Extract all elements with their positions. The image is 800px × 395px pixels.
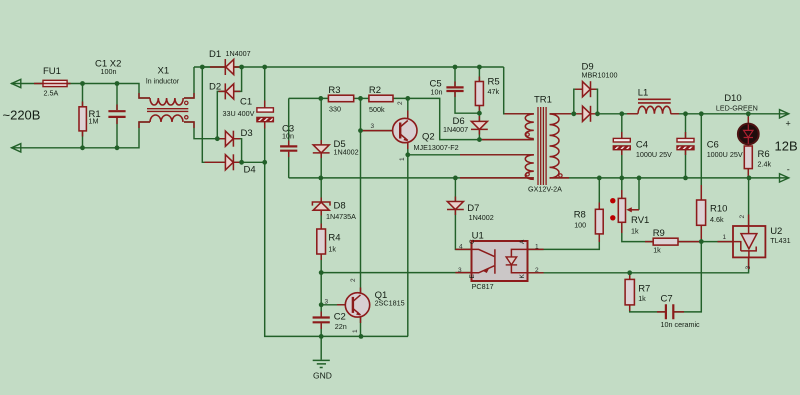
- svg-text:100: 100: [574, 221, 586, 230]
- resistor R7: [625, 279, 634, 305]
- wire R10 column: [674, 114, 702, 312]
- wire Q2 base: [361, 130, 394, 132]
- wire C5 column: [455, 67, 479, 113]
- wire RV1 leads: [622, 178, 653, 242]
- led D10: [738, 124, 759, 145]
- svg-text:D8: D8: [334, 201, 346, 212]
- svg-text:LED-GREEN: LED-GREEN: [716, 104, 758, 113]
- wire D10 R6 column: [747, 114, 749, 178]
- svg-text:4.6k: 4.6k: [710, 215, 724, 224]
- svg-text:2SC1815: 2SC1815: [375, 299, 405, 308]
- wire C3 column: [288, 98, 290, 177]
- svg-text:FU1: FU1: [43, 66, 61, 77]
- svg-text:1: 1: [352, 329, 359, 333]
- wire U2 cathode lead: [748, 178, 750, 226]
- ground: [313, 360, 330, 367]
- wire C1 column: [264, 67, 266, 162]
- svg-text:2: 2: [739, 215, 746, 219]
- svg-text:GND: GND: [313, 371, 332, 381]
- diode D2: [225, 83, 233, 99]
- optocoupler U1: [472, 241, 528, 281]
- wire Q2 emitter node: [408, 140, 534, 336]
- wire left bridge rail: [202, 67, 225, 162]
- rv1 marker dots: [610, 198, 615, 221]
- capacitor C2: [313, 318, 330, 323]
- svg-text:Q2: Q2: [422, 132, 435, 143]
- wire C6 column: [685, 114, 687, 178]
- wire bottom input row: [11, 122, 150, 148]
- svg-text:4: 4: [459, 244, 463, 251]
- wire R1 R4 R5 pins: [83, 77, 480, 261]
- svg-text:D1: D1: [209, 49, 221, 60]
- inductor L1: [638, 99, 671, 114]
- svg-text:330: 330: [329, 105, 341, 114]
- wire secondary bottom rail: [552, 177, 788, 179]
- svg-text:GX12V-2A: GX12V-2A: [528, 185, 562, 194]
- resistor R4: [317, 229, 326, 254]
- svg-text:10n ceramic: 10n ceramic: [661, 320, 701, 329]
- capacitor C7: [666, 304, 673, 319]
- svg-text:D4: D4: [244, 165, 256, 176]
- svg-text:A: A: [519, 239, 526, 244]
- svg-text:1: 1: [399, 157, 406, 161]
- svg-text:X1: X1: [158, 66, 170, 77]
- wire D8 top lead: [320, 178, 322, 202]
- wire D5 leads: [320, 98, 322, 177]
- output arrow plus: [780, 110, 789, 118]
- svg-text:1N4002: 1N4002: [334, 148, 359, 157]
- svg-text:1: 1: [723, 234, 727, 241]
- wire primary clamp rail: [289, 177, 534, 179]
- wire gnd stub: [320, 336, 322, 359]
- svg-text:1k: 1k: [328, 245, 336, 254]
- wire D10 R6 pins: [747, 117, 749, 177]
- svg-text:R3: R3: [328, 85, 340, 96]
- wire top rail: [194, 66, 504, 68]
- wire RV1 pins: [621, 190, 623, 233]
- wire C4 C6 pins: [622, 132, 686, 155]
- wire U1 pin stubs: [455, 249, 543, 272]
- transistor Q1: [345, 293, 369, 317]
- wire R1 leads: [82, 84, 84, 148]
- svg-text:3: 3: [458, 267, 462, 274]
- svg-text:1000U 25V: 1000U 25V: [636, 150, 672, 159]
- zener diode D8: [312, 202, 330, 210]
- svg-text:R2: R2: [369, 85, 381, 96]
- svg-text:R7: R7: [638, 284, 650, 295]
- transformer TR1: [525, 107, 562, 185]
- svg-text:R4: R4: [328, 233, 340, 244]
- wire C2 column: [320, 305, 322, 337]
- output arrow minus: [780, 174, 789, 182]
- svg-text:C: C: [469, 239, 476, 244]
- svg-text:C2: C2: [334, 312, 346, 323]
- wire C1 pins: [264, 101, 266, 129]
- svg-text:47k: 47k: [488, 87, 500, 96]
- svg-text:2.4k: 2.4k: [758, 160, 772, 169]
- svg-text:R6: R6: [758, 149, 770, 160]
- svg-text:1N4007: 1N4007: [226, 49, 251, 58]
- svg-text:MJE13007-F2: MJE13007-F2: [414, 143, 459, 152]
- diode D5: [313, 145, 330, 153]
- resistor R5: [475, 82, 483, 106]
- svg-text:D2: D2: [209, 82, 221, 93]
- input arrow bottom: [12, 144, 21, 152]
- svg-text:500k: 500k: [369, 105, 385, 114]
- wire R4 leads: [320, 210, 322, 273]
- capacitor C6: [677, 138, 694, 149]
- wire top input row: [11, 84, 150, 99]
- wire R9 right / U2 ref: [678, 241, 733, 243]
- svg-text:1N4007: 1N4007: [443, 125, 468, 134]
- resistor R6: [744, 146, 752, 169]
- shunt regulator U2: [733, 226, 765, 257]
- svg-text:C6: C6: [707, 140, 719, 151]
- capacitor C4: [613, 138, 630, 149]
- wire snubber top row: [289, 97, 329, 99]
- wire D5 D6 D7 D8 pins: [321, 116, 479, 216]
- wire Q1 Q2 stubs: [337, 111, 408, 324]
- capacitor C5: [446, 87, 463, 91]
- wire R8 pins: [598, 203, 600, 243]
- common mode choke X1: [147, 98, 188, 122]
- svg-text:2.5A: 2.5A: [44, 89, 59, 98]
- wire C5 C3 C2 C1X2 pins: [117, 82, 455, 330]
- diode D6: [471, 121, 488, 129]
- diode D1: [225, 59, 233, 75]
- wire C1 minus down to ground rail: [265, 162, 408, 336]
- svg-text:L1: L1: [638, 88, 649, 99]
- svg-text:10n: 10n: [431, 88, 443, 97]
- svg-text:PC817: PC817: [472, 282, 494, 291]
- svg-text:D10: D10: [724, 93, 741, 104]
- svg-text:3: 3: [325, 299, 329, 306]
- svg-text:3: 3: [745, 266, 752, 270]
- wire D3 leads: [217, 139, 241, 163]
- resistor R10: [697, 200, 706, 225]
- svg-text:22n: 22n: [335, 322, 347, 331]
- wire D9 side columns: [574, 89, 598, 114]
- svg-text:R10: R10: [710, 204, 727, 215]
- svg-text:C4: C4: [636, 140, 648, 151]
- wire C7 left to R7: [630, 305, 666, 312]
- wire U2 pin stubs: [718, 215, 749, 270]
- svg-text:1: 1: [535, 244, 539, 251]
- wire D4 cathode row: [233, 161, 264, 163]
- svg-text:TL431: TL431: [770, 236, 790, 245]
- wire bridge diode pins: [205, 67, 241, 162]
- svg-text:D3: D3: [241, 128, 253, 139]
- svg-text:2: 2: [350, 278, 357, 282]
- wire Q2 collector node: [393, 98, 534, 139]
- svg-text:3: 3: [371, 123, 375, 130]
- wire L1 pins: [627, 113, 679, 115]
- wire Q1 base column: [321, 273, 344, 305]
- wire R9 pins: [645, 241, 700, 243]
- resistor R1: [79, 107, 86, 131]
- fuse FU1: [34, 80, 71, 86]
- dual diode D9: [583, 81, 591, 122]
- svg-text:MBR10100: MBR10100: [582, 71, 618, 80]
- diode D4: [225, 154, 233, 170]
- svg-text:10n: 10n: [282, 132, 294, 141]
- svg-text:RV1: RV1: [631, 215, 649, 226]
- svg-text:TR1: TR1: [534, 95, 552, 106]
- wire R10 pins: [700, 185, 702, 239]
- wire secondary top leads: [550, 113, 788, 115]
- component pin leads (dark red): [83, 67, 749, 329]
- svg-text:1k: 1k: [631, 227, 639, 236]
- wire primary top feed: [504, 67, 534, 114]
- wire R8 top lead: [598, 178, 600, 209]
- wire D7 column: [455, 178, 471, 250]
- svg-text:C1: C1: [240, 97, 252, 108]
- wire C4 column: [621, 114, 623, 178]
- wire X1 pins: [139, 93, 194, 128]
- svg-text:12В: 12В: [775, 139, 798, 154]
- wire D1 leads: [202, 66, 241, 68]
- svg-text:1N4735A: 1N4735A: [326, 212, 356, 221]
- svg-text:E: E: [469, 274, 476, 279]
- svg-text:K: K: [519, 274, 526, 279]
- wire R3 R2 junction: [354, 97, 369, 99]
- svg-text:2: 2: [535, 267, 539, 274]
- svg-text:33U 400V: 33U 400V: [223, 109, 255, 118]
- svg-text:ln inductor: ln inductor: [146, 77, 180, 86]
- potentiometer RV1: [618, 198, 639, 222]
- diode D7: [447, 202, 464, 210]
- svg-text:100n: 100n: [101, 67, 117, 76]
- wire choke top right to top rail: [184, 67, 194, 98]
- svg-text:1k: 1k: [638, 294, 646, 303]
- svg-text:-: -: [787, 165, 790, 175]
- wire C1X2 leads: [116, 84, 118, 148]
- capacitor C3: [280, 146, 297, 150]
- diode D3: [225, 131, 233, 147]
- svg-text:1k: 1k: [653, 246, 661, 255]
- pin letters U1: [469, 239, 526, 279]
- wire D6 leads: [478, 113, 480, 139]
- transistor Q2: [393, 118, 417, 142]
- svg-text:R9: R9: [653, 228, 665, 239]
- wire R5 leads: [478, 67, 480, 113]
- wire U1 pin3 rail: [321, 272, 471, 274]
- svg-text:2: 2: [397, 101, 404, 105]
- resistor R3: [328, 95, 353, 102]
- svg-text:~220В: ~220В: [3, 108, 41, 123]
- capacitor C1 X2: [108, 111, 125, 117]
- wire R7 top lead: [629, 273, 631, 280]
- capacitor C1 electrolytic: [257, 108, 274, 122]
- input arrow top: [12, 79, 21, 87]
- svg-text:1M: 1M: [89, 117, 99, 126]
- svg-text:R8: R8: [574, 210, 586, 221]
- wire choke bottom right to D3 node: [184, 122, 217, 139]
- resistor R9: [653, 238, 678, 245]
- resistor R2: [369, 95, 393, 102]
- resistor R8: [595, 209, 603, 234]
- svg-text:+: +: [786, 119, 791, 129]
- svg-text:1N4002: 1N4002: [469, 213, 494, 222]
- wire U1 pin2 rail: [528, 257, 749, 272]
- wire D2 cathode up: [234, 67, 242, 91]
- wire RV1 wiper up: [638, 178, 640, 210]
- wire D9 pins: [575, 89, 596, 114]
- svg-text:C7: C7: [661, 294, 673, 305]
- wire R7 C7 pins: [630, 275, 684, 312]
- svg-text:1000U 25V: 1000U 25V: [707, 150, 743, 159]
- wire TR1 pins: [460, 114, 571, 178]
- wire U1 pin1 to R8: [528, 234, 600, 250]
- wire Q1 collector column: [360, 98, 362, 336]
- wire D2 anode column: [217, 91, 225, 138]
